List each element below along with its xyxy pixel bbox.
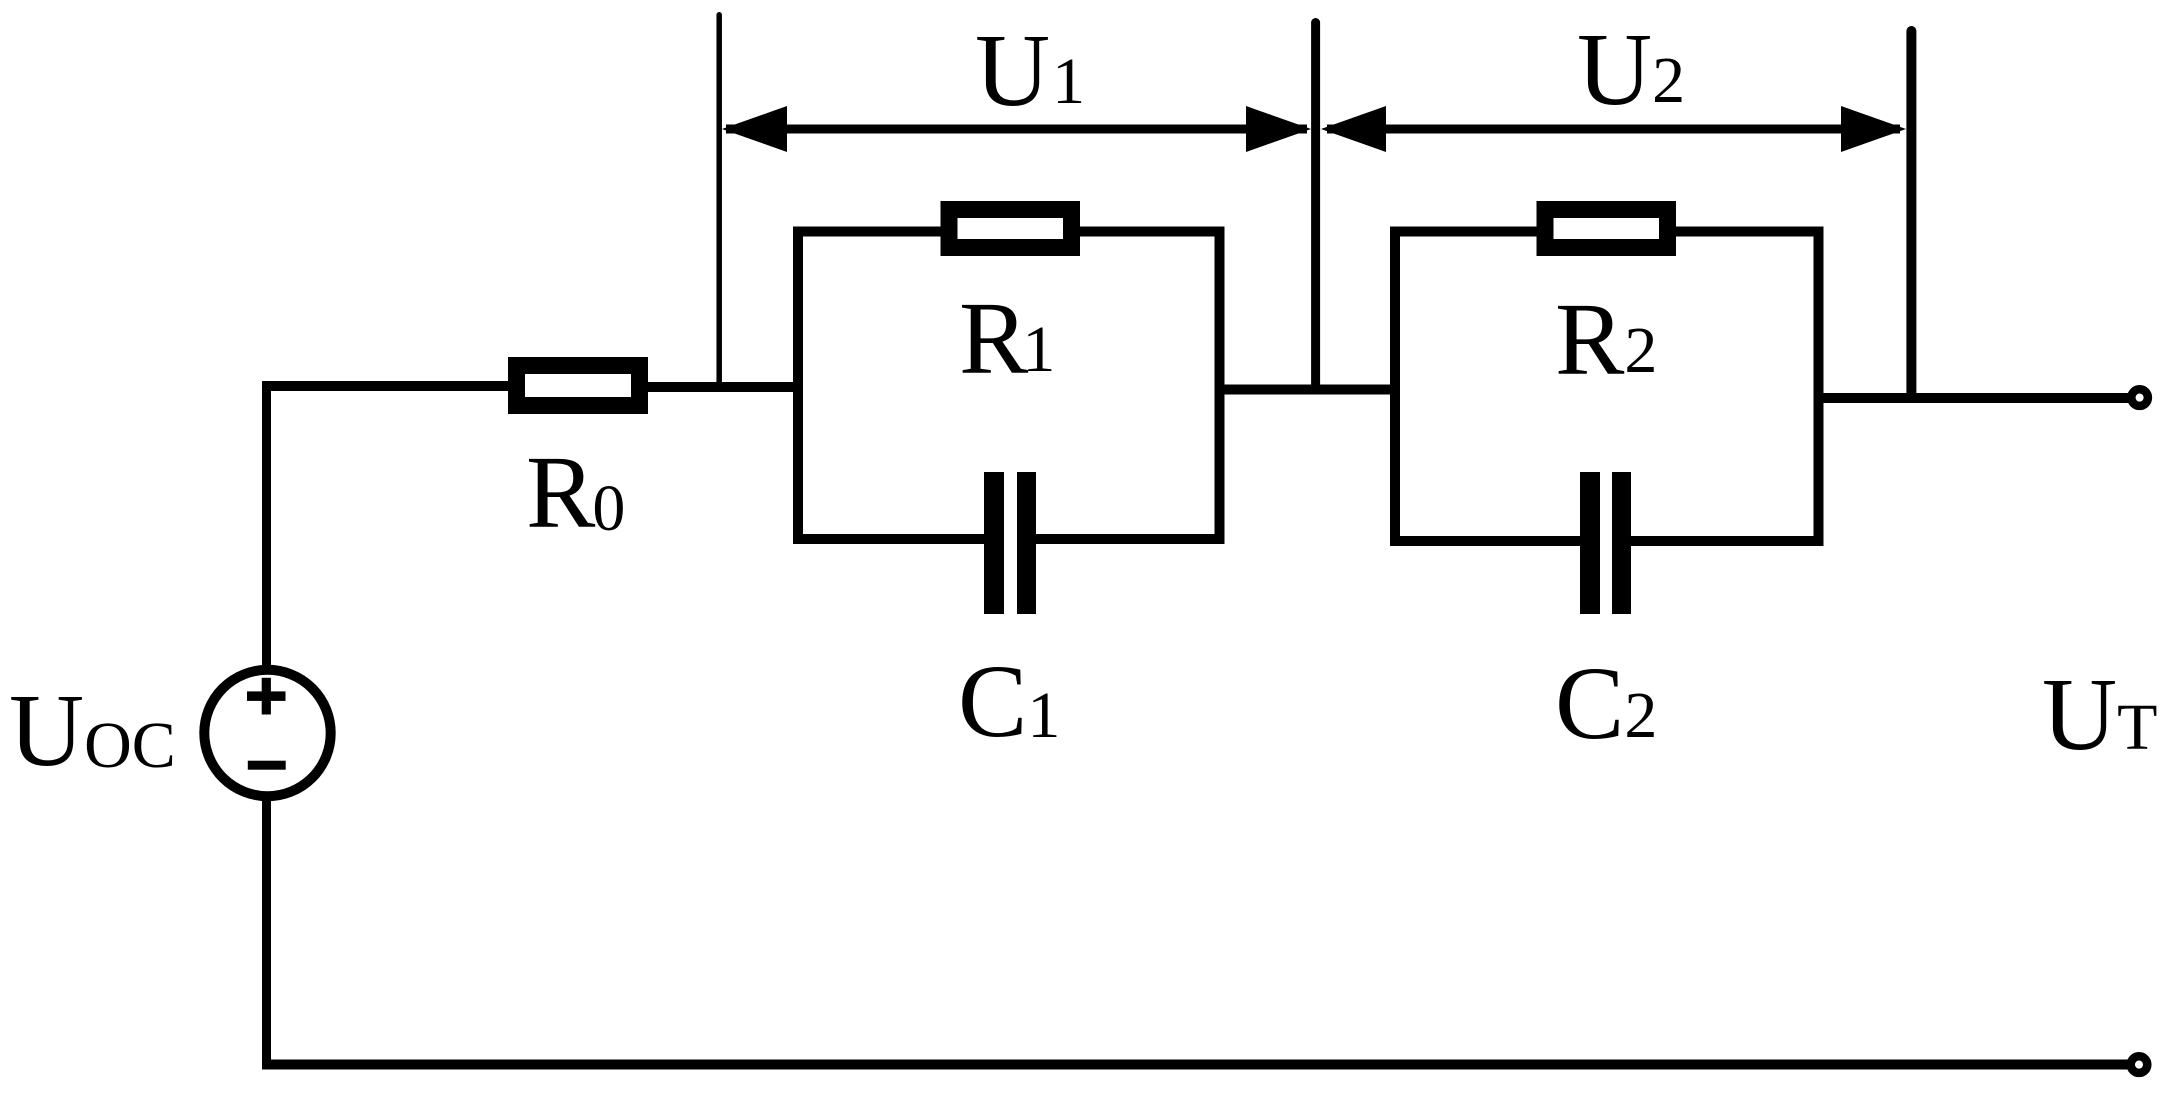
svg-text:UOC: UOC (9, 673, 176, 788)
voltage source U_OC (204, 670, 330, 796)
resistor R2 (1545, 210, 1668, 248)
RC branch box R1/C1 (798, 232, 1220, 540)
dimension arrow U2 (1321, 106, 1906, 152)
wire: left vertical from source bottom to bottom wire (262, 799, 271, 1069)
svg-text:R2: R2 (1555, 282, 1657, 397)
node tick middle (1311, 23, 1320, 390)
svg-text:U1: U1 (975, 13, 1085, 128)
wire: bottom horizontal to negative terminal (262, 1060, 2131, 1070)
svg-text:R1: R1 (959, 281, 1055, 396)
node tick left (U1 reference) (716, 15, 722, 388)
svg-text:C1: C1 (958, 644, 1060, 759)
svg-text:C2: C2 (1555, 646, 1657, 761)
wire: top-left horizontal from corner to R0 (262, 381, 510, 391)
positive output terminal (2131, 389, 2148, 406)
wire: from R0 to R1 network (646, 382, 798, 392)
capacitor C2 (1580, 472, 1631, 614)
RC branch box R2/C2 (1395, 232, 1819, 542)
wire: left vertical from top wire down to source top (262, 382, 271, 669)
capacitor C1 (984, 472, 1036, 614)
svg-text:UT: UT (2042, 657, 2157, 772)
resistor R1 (949, 210, 1072, 248)
node tick right (U2 reference) (1906, 31, 1916, 397)
svg-text:R0: R0 (526, 435, 625, 550)
negative output terminal (2131, 1056, 2148, 1073)
svg-text:U2: U2 (1577, 12, 1685, 127)
dimension arrow U1 (722, 106, 1311, 152)
wire: from R2 network to positive terminal (1817, 393, 2132, 403)
wire: between R1 and R2 networks (1220, 385, 1396, 395)
resistor R0 (517, 366, 640, 406)
